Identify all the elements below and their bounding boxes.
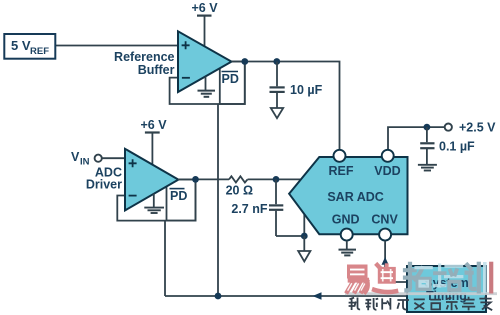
system timing box: [407, 266, 486, 312]
capacitor 2.7nF: [231, 179, 283, 236]
wire: 2.7nF bottom to ground node: [276, 214, 304, 236]
watermark logo char 3 (over box): [405, 264, 430, 291]
capacitor 0.1uF: [420, 127, 475, 164]
svg-text:20 Ω: 20 Ω: [226, 183, 253, 197]
label ADC Driver: [86, 166, 122, 192]
svg-text:SAR ADC: SAR ADC: [327, 190, 383, 204]
watermark logo char 1 (red): [347, 265, 368, 292]
svg-text:IN: IN: [80, 157, 90, 168]
label Reference Buffer: [114, 50, 175, 77]
feedback wire op-amp U1 (minus input loop): [170, 62, 245, 105]
ground under U1: [198, 77, 216, 97]
ground under U2: [144, 194, 164, 214]
bus wire: system timing to PD pins with left arrow: [165, 292, 407, 299]
op-amp U1 reference buffer: [178, 31, 232, 92]
feedback wire op-amp U2: [117, 180, 195, 221]
input terminal VIN: [71, 150, 102, 168]
pin GND: [341, 229, 353, 241]
watermark logo char 4 (over box): [435, 265, 462, 286]
PD box U1: [220, 62, 245, 105]
svg-text:+6 V: +6 V: [192, 1, 219, 15]
wire: VDD pin up to +2.5V: [388, 127, 448, 150]
source box 5 VREF: [4, 34, 55, 59]
ground below 0.1uF: [418, 165, 437, 171]
+6V supply rail (top, reference buffer): [192, 1, 219, 48]
svg-text:+2.5 V: +2.5 V: [459, 121, 496, 135]
svg-text:2.7 nF: 2.7 nF: [231, 202, 267, 216]
terminal +2.5V: [445, 121, 496, 135]
ground arrow below junction: [298, 236, 310, 262]
svg-text:Buffer: Buffer: [138, 63, 175, 77]
svg-text:REF: REF: [30, 46, 49, 57]
wire: system timing to CNV with arrow: [382, 241, 408, 282]
resistor 20 ohm: [226, 176, 253, 197]
wire: 5VREF box to reference buffer + input: [55, 45, 178, 47]
svg-text:VDD: VDD: [374, 164, 400, 178]
PD box U2: [167, 180, 196, 221]
svg-text:GND: GND: [332, 213, 360, 227]
wire: resistor to SAR ADC input: [248, 178, 304, 180]
svg-text:V: V: [71, 150, 80, 164]
wire: U1 output to REF pin: [232, 62, 340, 151]
node: PD bus junction: [215, 293, 222, 300]
ground arrow below 10uF: [271, 108, 283, 118]
node: 2.7nF branch junction: [273, 176, 280, 183]
wire: PD U1 down to system timing bus: [217, 104, 219, 296]
svg-text:PD: PD: [222, 72, 239, 86]
node: 0.1uF junction: [424, 124, 431, 131]
pin VDD: [382, 150, 394, 162]
node: ADC ground junction: [301, 233, 308, 240]
wire: PD U2 down to system timing bus: [164, 221, 166, 296]
node: U2 output junction: [192, 176, 199, 183]
svg-text:+6 V: +6 V: [141, 118, 168, 132]
capacitor 10uF: [270, 62, 323, 108]
watermark subtitle row: [349, 296, 493, 310]
svg-text:REF: REF: [329, 164, 354, 178]
node: 10uF branch junction: [273, 58, 280, 65]
+6V supply rail (ADC driver): [141, 118, 168, 166]
node: U1 output junction: [241, 58, 248, 65]
svg-text:5 V: 5 V: [11, 38, 31, 53]
wire: U2 output to resistor: [178, 178, 229, 180]
SAR ADC body: [289, 157, 407, 234]
svg-text:PD: PD: [170, 189, 187, 203]
wire: VIN to ADC driver + input: [102, 157, 126, 159]
svg-text:10 µF: 10 µF: [290, 83, 323, 97]
watermark logo char 5 (over box edge): [467, 264, 479, 292]
pin REF: [334, 150, 346, 162]
label PD (active low) U2: [170, 189, 188, 203]
op-amp U2 ADC driver: [125, 149, 178, 211]
svg-text:0.1 µF: 0.1 µF: [439, 140, 475, 154]
pin CNV: [379, 229, 391, 241]
svg-text:CNV: CNV: [371, 213, 398, 227]
watermark underline bar: [345, 292, 497, 295]
watermark logo char 2 (red): [374, 263, 396, 292]
ground under GND pin: [339, 240, 357, 255]
svg-text:Driver: Driver: [86, 178, 122, 192]
label PD (active low) U1: [222, 72, 239, 87]
